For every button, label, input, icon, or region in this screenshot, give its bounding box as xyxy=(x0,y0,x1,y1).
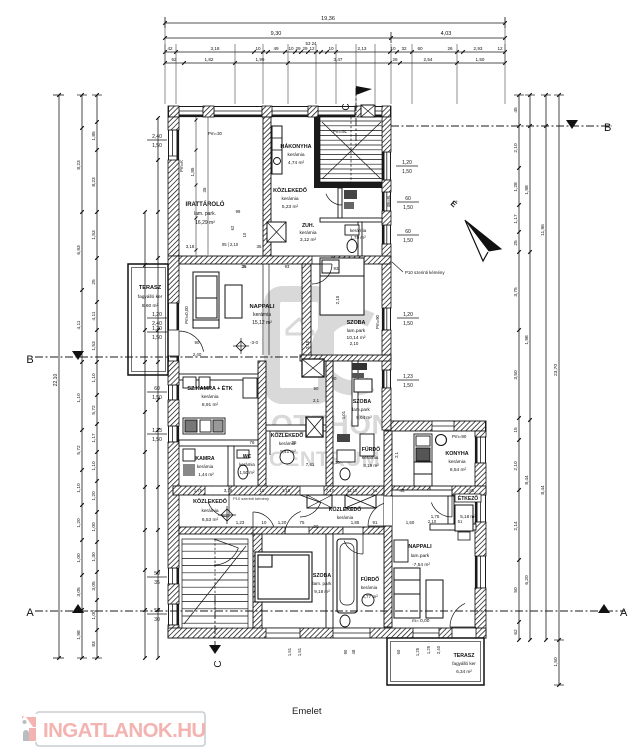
left wall hatch 7 xyxy=(168,625,179,638)
svg-text:30: 30 xyxy=(154,617,160,623)
svg-text:NAPPALI: NAPPALI xyxy=(408,544,432,550)
svg-text:1,70 m²: 1,70 m² xyxy=(350,235,366,240)
bed szoba1 xyxy=(320,258,364,315)
svg-text:1,00: 1,00 xyxy=(91,522,97,532)
svg-text:HÁKONYHA: HÁKONYHA xyxy=(280,143,311,150)
svg-text:1,50: 1,50 xyxy=(152,395,162,401)
right exterior wall band xyxy=(382,117,391,430)
svg-text:2,10: 2,10 xyxy=(513,461,519,471)
wc bottom xyxy=(340,615,350,627)
sofa nappali xyxy=(193,272,219,328)
svg-text:kerámia: kerámia xyxy=(239,462,255,467)
svg-text:-3·0: -3·0 xyxy=(250,340,258,345)
wall left of bottom szoba xyxy=(253,534,262,628)
shaft X box 2 xyxy=(306,417,323,437)
right wall hatch 6 xyxy=(382,388,391,430)
svg-text:1,20: 1,20 xyxy=(91,491,97,501)
kitchen counter wing xyxy=(414,434,447,486)
svg-text:1,99: 1,99 xyxy=(256,57,265,62)
partition wc top xyxy=(338,188,342,218)
svg-text:KÖZLEKEDŐ: KÖZLEKEDŐ xyxy=(273,187,307,194)
svg-text:1,50: 1,50 xyxy=(152,143,162,149)
wing right wall hatch 0 xyxy=(475,431,486,437)
right wall hatch 4 xyxy=(382,244,391,308)
corridor crossed cabinets xyxy=(307,495,332,508)
svg-text:1,20: 1,20 xyxy=(152,326,162,332)
svg-text:35: 35 xyxy=(242,264,247,269)
svg-text:2,93: 2,93 xyxy=(474,46,483,51)
svg-text:kerámia: kerámia xyxy=(253,312,271,318)
right dimension chain x546 xyxy=(545,95,547,640)
svg-text:3,47: 3,47 xyxy=(334,57,343,62)
wing dining wall h xyxy=(430,524,476,530)
door arc szoba bottom left xyxy=(253,512,274,527)
svg-text:lam.park: lam.park xyxy=(352,407,370,412)
wing right wall hatch 2 xyxy=(475,522,486,556)
svg-text:1,82: 1,82 xyxy=(205,57,214,62)
svg-text:ZUH.: ZUH. xyxy=(302,223,315,229)
svg-text:2,15: 2,15 xyxy=(335,295,340,304)
interior extension lines x196 x208 xyxy=(195,110,197,255)
svg-text:kerámia: kerámia xyxy=(201,394,218,400)
wall szkamra right xyxy=(258,361,266,486)
top wall window glass lines xyxy=(179,110,203,112)
svg-text:2,10: 2,10 xyxy=(305,340,310,349)
svg-text:INGATLANOK.HU: INGATLANOK.HU xyxy=(43,719,206,742)
svg-text:5,72: 5,72 xyxy=(91,405,97,415)
svg-text:8,91 m²: 8,91 m² xyxy=(202,402,219,408)
svg-text:Pm=9L: Pm=9L xyxy=(333,129,348,134)
svg-text:25: 25 xyxy=(292,440,297,445)
wardrobe wing top xyxy=(394,540,408,562)
terrace door opening left xyxy=(168,330,179,356)
shaft X box 1 xyxy=(302,359,324,377)
svg-text:KAMRA: KAMRA xyxy=(195,456,215,462)
svg-text:62: 62 xyxy=(513,629,519,635)
svg-text:1,20: 1,20 xyxy=(152,312,162,318)
svg-text:3,18: 3,18 xyxy=(224,488,233,493)
svg-text:1,51: 1,51 xyxy=(297,647,302,656)
wing top wall xyxy=(391,421,486,431)
svg-text:kerámia: kerámia xyxy=(197,464,214,469)
section line C top flag xyxy=(355,88,357,146)
door arc szoba bottom xyxy=(285,511,301,534)
wing dining wall v xyxy=(448,496,454,530)
svg-text:1,51: 1,51 xyxy=(287,647,292,656)
svg-text:2,13: 2,13 xyxy=(358,46,367,51)
svg-text:WC: WC xyxy=(243,454,252,460)
svg-text:P10 szerinti kémény: P10 szerinti kémény xyxy=(233,496,269,501)
svg-text:1,50: 1,50 xyxy=(406,520,415,525)
right wall hatch 3 xyxy=(382,211,391,225)
svg-text:1,23: 1,23 xyxy=(152,428,162,434)
svg-text:lam.park: lam.park xyxy=(411,553,430,559)
szoba2 partition xyxy=(352,361,358,426)
svg-text:2,10: 2,10 xyxy=(428,519,437,524)
svg-text:kerámia: kerámia xyxy=(281,196,298,202)
svg-text:60: 60 xyxy=(154,386,160,392)
svg-text:1,53: 1,53 xyxy=(91,341,97,351)
left wall hatch 6 xyxy=(168,584,179,604)
interior wall irattarolo right xyxy=(263,117,271,256)
svg-text:A: A xyxy=(620,607,628,619)
svg-text:3,05: 3,05 xyxy=(91,581,97,591)
door arc corridor2 xyxy=(300,503,321,518)
svg-text:49: 49 xyxy=(273,46,279,51)
svg-text:6,53 m²: 6,53 m² xyxy=(202,517,219,523)
svg-text:5,41 m²: 5,41 m² xyxy=(280,449,296,454)
svg-text:7,10: 7,10 xyxy=(326,488,335,493)
svg-text:KÖZLEKEDŐ: KÖZLEKEDŐ xyxy=(329,506,362,513)
svg-text:3,75: 3,75 xyxy=(513,287,519,297)
wing right wall hatch 1 xyxy=(475,463,486,492)
kamra top wall xyxy=(179,440,258,446)
svg-text:TERASZ: TERASZ xyxy=(139,285,162,291)
svg-text:10: 10 xyxy=(255,46,261,51)
svg-text:10: 10 xyxy=(288,46,294,51)
svg-text:KONYHA: KONYHA xyxy=(445,451,468,457)
wing kitchen bottom wall xyxy=(392,490,452,496)
svg-text:41,10: 41,10 xyxy=(347,488,358,493)
svg-text:B: B xyxy=(604,122,611,134)
corridor bottom wall xyxy=(179,527,390,534)
svg-text:2,40: 2,40 xyxy=(193,352,202,357)
svg-text:1,20: 1,20 xyxy=(402,160,412,166)
bottom terrace door opening xyxy=(452,628,476,638)
svg-text:C: C xyxy=(341,103,352,110)
sink bottom bath xyxy=(362,594,374,606)
svg-text:1,23: 1,23 xyxy=(236,520,245,525)
svg-text:7,41: 7,41 xyxy=(306,462,315,467)
svg-text:Pm=K: Pm=K xyxy=(179,160,184,172)
bathtub bottom xyxy=(337,539,357,613)
svg-text:C: C xyxy=(213,660,224,667)
svg-text:1,85: 1,85 xyxy=(190,167,195,176)
svg-text:60: 60 xyxy=(417,46,423,51)
svg-text:8,54 m²: 8,54 m² xyxy=(450,467,467,473)
svg-text:kerámia: kerámia xyxy=(361,585,378,590)
svg-text:A: A xyxy=(26,607,34,619)
svg-text:15,12 m²: 15,12 m² xyxy=(252,320,272,326)
svg-text:60: 60 xyxy=(396,649,401,654)
top dimension chain row 1 overall xyxy=(165,22,505,24)
svg-text:É: É xyxy=(449,199,459,210)
dining table etkezo xyxy=(455,505,473,531)
svg-text:1,50: 1,50 xyxy=(403,383,413,389)
top wall pillar 4 xyxy=(355,106,365,117)
svg-text:KÖZLEKEDŐ: KÖZLEKEDŐ xyxy=(271,432,304,439)
svg-text:Pm=90: Pm=90 xyxy=(452,434,467,439)
left wall window glass lines xyxy=(172,130,174,156)
svg-text:3,18: 3,18 xyxy=(211,46,220,51)
svg-text:10: 10 xyxy=(262,520,267,525)
svg-text:6,34 m²: 6,34 m² xyxy=(456,669,472,674)
svg-text:10: 10 xyxy=(242,232,247,237)
svg-text:kerámia: kerámia xyxy=(287,152,304,158)
top dimension chain row 2 xyxy=(165,37,505,39)
svg-text:8,44: 8,44 xyxy=(524,475,530,485)
door arc top wc xyxy=(326,194,342,205)
right wall hatch 1 xyxy=(382,117,391,152)
svg-text:93: 93 xyxy=(334,266,339,271)
svg-text:NAPPALI: NAPPALI xyxy=(249,304,274,310)
svg-text:1,01: 1,01 xyxy=(341,410,346,419)
top-right corner pillar xyxy=(382,106,391,117)
svg-text:62: 62 xyxy=(230,225,235,230)
left dimension chain x82 xyxy=(81,95,83,658)
room label etkezo xyxy=(455,494,481,502)
svg-text:93: 93 xyxy=(285,264,290,269)
svg-text:8,23: 8,23 xyxy=(91,177,97,187)
top-left corner pillar xyxy=(168,106,179,117)
svg-text:3,18: 3,18 xyxy=(186,244,195,249)
svg-text:45: 45 xyxy=(513,107,519,113)
svg-text:16,29 m²: 16,29 m² xyxy=(195,220,215,226)
svg-text:Emelet: Emelet xyxy=(292,706,322,717)
top dimension chain row 4 xyxy=(165,62,505,64)
svg-text:IRATTÁROLÓ: IRATTÁROLÓ xyxy=(186,200,225,208)
kozlekedo mid fixtures xyxy=(280,450,294,464)
svg-text:2,1: 2,1 xyxy=(394,451,399,457)
svg-text:3,19 m²: 3,19 m² xyxy=(363,463,379,468)
svg-text:1,10: 1,10 xyxy=(91,373,97,383)
svg-text:B: B xyxy=(26,354,33,366)
bottom exterior wall xyxy=(168,628,486,638)
svg-text:1,98: 1,98 xyxy=(524,335,530,345)
svg-text:5,23 m²: 5,23 m² xyxy=(282,204,299,210)
svg-text:1,85: 1,85 xyxy=(466,488,475,493)
left exterior wall band xyxy=(168,117,179,638)
svg-text:m= 0,00: m= 0,00 xyxy=(412,618,430,624)
zuh shower X xyxy=(267,222,286,242)
kozlekedo mid top wall xyxy=(266,425,326,431)
svg-text:51: 51 xyxy=(458,519,463,524)
interior wall below top rooms xyxy=(179,256,391,264)
svg-text:6,20: 6,20 xyxy=(524,575,530,585)
svg-text:35: 35 xyxy=(154,580,160,586)
svg-text:8,60 m²: 8,60 m² xyxy=(142,303,159,309)
svg-text:1,50 m²: 1,50 m² xyxy=(240,470,255,475)
svg-text:SZOBA: SZOBA xyxy=(347,320,366,326)
table nappali xyxy=(225,285,242,318)
svg-text:9,30: 9,30 xyxy=(271,31,282,37)
svg-text:15: 15 xyxy=(513,427,519,433)
svg-text:19,36: 19,36 xyxy=(321,16,335,22)
svg-text:·7,54 m²: ·7,54 m² xyxy=(412,562,430,568)
door arc stair xyxy=(214,548,238,565)
svg-text:fagyálló ker: fagyálló ker xyxy=(138,294,163,300)
main middle wall xyxy=(173,486,486,495)
svg-text:60: 60 xyxy=(405,196,411,202)
svg-text:TERASZ: TERASZ xyxy=(454,653,476,659)
top exterior wall band xyxy=(168,106,391,117)
svg-text:1,10: 1,10 xyxy=(91,461,97,471)
svg-text:1,75: 1,75 xyxy=(431,514,440,519)
svg-text:25: 25 xyxy=(91,279,97,285)
stair enclosure walls top xyxy=(314,117,320,188)
svg-text:1,30: 1,30 xyxy=(91,552,97,562)
section line B left xyxy=(35,356,302,358)
door arc kitchen xyxy=(431,503,452,518)
terrace bottom right outline xyxy=(387,638,484,685)
top wall pillar 3 xyxy=(308,106,318,117)
svg-text:1,00: 1,00 xyxy=(91,610,97,620)
svg-text:1,85: 1,85 xyxy=(91,131,97,141)
shaft X box top wall xyxy=(361,105,375,117)
svg-text:60: 60 xyxy=(405,229,411,235)
svg-text:2,54: 2,54 xyxy=(424,57,433,62)
svg-text:1,50: 1,50 xyxy=(553,657,559,667)
svg-text:Pm=90: Pm=90 xyxy=(375,314,380,329)
svg-text:1,28: 1,28 xyxy=(513,182,519,192)
right wall hatch 2 xyxy=(382,180,391,192)
svg-text:75: 75 xyxy=(300,520,305,525)
svg-text:90: 90 xyxy=(314,524,319,529)
svg-text:35: 35 xyxy=(202,187,207,192)
svg-text:1,53: 1,53 xyxy=(91,230,97,240)
svg-text:83: 83 xyxy=(91,641,97,647)
svg-text:4,77 m²: 4,77 m² xyxy=(362,594,378,599)
left wall hatch 5 xyxy=(168,442,179,568)
svg-text:90: 90 xyxy=(314,386,319,391)
svg-text:05 | 2,10: 05 | 2,10 xyxy=(222,242,239,247)
svg-text:4,11: 4,11 xyxy=(91,311,97,320)
svg-text:kerámia: kerámia xyxy=(362,455,379,460)
svg-text:1,17: 1,17 xyxy=(513,214,519,224)
svg-text:23,70: 23,70 xyxy=(553,364,559,376)
furdo top fixtures xyxy=(337,434,350,442)
svg-text:29: 29 xyxy=(295,46,301,51)
svg-text:SZOBA: SZOBA xyxy=(313,573,331,579)
svg-text:12: 12 xyxy=(309,46,315,51)
svg-text:lam. park.: lam. park. xyxy=(194,211,216,217)
szkamra furniture xyxy=(183,377,196,388)
door arc terrace2 xyxy=(450,603,465,627)
door arc corridor1 xyxy=(208,503,229,518)
svg-text:1,00: 1,00 xyxy=(76,553,82,563)
elevation marker nappali xyxy=(236,341,246,351)
partition zuh top xyxy=(320,218,382,222)
wall szoba2 left xyxy=(326,361,333,486)
svg-text:3,50: 3,50 xyxy=(513,370,519,380)
interior wall nappali/szoba divider xyxy=(302,264,311,355)
svg-text:1,50: 1,50 xyxy=(403,238,413,244)
mid-left dimension chain x158 xyxy=(157,118,159,658)
svg-text:2,10: 2,10 xyxy=(350,341,359,346)
svg-text:29: 29 xyxy=(302,46,308,51)
svg-text:Pm=0,00: Pm=0,00 xyxy=(184,306,189,324)
terrace left outline xyxy=(128,264,168,375)
left wall hatch 3 xyxy=(168,361,179,385)
svg-text:SZ.KAMRA + ÉTK: SZ.KAMRA + ÉTK xyxy=(187,384,232,392)
svg-text:kerámia: kerámia xyxy=(448,459,465,465)
svg-text:35: 35 xyxy=(257,244,262,249)
svg-text:32: 32 xyxy=(401,46,407,51)
svg-text:1,20: 1,20 xyxy=(278,520,287,525)
svg-text:26: 26 xyxy=(447,46,453,51)
svg-text:12: 12 xyxy=(497,46,503,51)
szoba2 fixtures xyxy=(352,363,367,370)
terrace door arc xyxy=(179,331,204,352)
svg-text:1,50: 1,50 xyxy=(152,335,162,341)
svg-text:99: 99 xyxy=(236,209,241,214)
left wall hatch 2 xyxy=(168,256,179,303)
svg-text:51: 51 xyxy=(373,488,378,493)
svg-text:1,85: 1,85 xyxy=(351,520,360,525)
svg-text:lam. park: lam. park xyxy=(313,581,333,586)
svg-text:1,20: 1,20 xyxy=(403,312,413,318)
svg-text:1,50: 1,50 xyxy=(402,169,412,175)
svg-text:9,04 m²: 9,04 m² xyxy=(356,415,372,420)
ingatlanok.hu logo box xyxy=(36,712,205,746)
svg-text:2,10: 2,10 xyxy=(513,143,519,153)
svg-text:90: 90 xyxy=(195,340,200,345)
svg-text:1,25: 1,25 xyxy=(426,645,431,654)
top dimension chain row 3 xyxy=(165,51,505,53)
svg-text:6,93: 6,93 xyxy=(76,245,82,255)
left chains top/bottom terminators xyxy=(77,94,87,96)
right dimension chain x530 xyxy=(529,95,531,640)
svg-text:1,98: 1,98 xyxy=(524,185,530,195)
nappali door arc xyxy=(312,264,332,284)
svg-text:Pm=30: Pm=30 xyxy=(208,131,223,136)
right dimension chain x519 xyxy=(518,95,520,640)
svg-text:P10 szerinti kémény: P10 szerinti kémény xyxy=(405,270,445,275)
mid-left dimension chain x145 xyxy=(144,212,146,658)
svg-text:SZOBA: SZOBA xyxy=(353,399,371,405)
elevation marker corridor xyxy=(221,509,233,521)
kamra/wc partition xyxy=(228,446,234,486)
svg-text:4,11: 4,11 xyxy=(76,320,82,329)
svg-text:5,72: 5,72 xyxy=(76,445,82,455)
wall main/wing divider xyxy=(384,431,392,627)
left wall hatch 0 xyxy=(168,117,179,130)
svg-text:48: 48 xyxy=(351,649,356,654)
svg-text:90: 90 xyxy=(332,376,337,381)
svg-text:4,03: 4,03 xyxy=(441,31,452,37)
svg-text:kerámia: kerámia xyxy=(299,230,316,236)
svg-text:FÜRDŐ: FÜRDŐ xyxy=(361,576,379,583)
wall szoba/furdo bottom xyxy=(326,534,333,628)
svg-text:1,20: 1,20 xyxy=(76,518,82,528)
svg-text:2,40: 2,40 xyxy=(152,134,162,140)
svg-text:5,18 m²: 5,18 m² xyxy=(460,514,476,519)
svg-text:dlk=8L: dlk=8L xyxy=(386,194,391,207)
svg-text:2,40: 2,40 xyxy=(436,645,441,654)
svg-text:91: 91 xyxy=(373,520,378,525)
svg-text:10: 10 xyxy=(260,488,265,493)
partition wc top2 xyxy=(358,222,362,256)
svg-text:3,12 m²: 3,12 m² xyxy=(300,237,317,243)
svg-text:1,23: 1,23 xyxy=(403,374,413,380)
top wall pillar 1 xyxy=(203,106,214,117)
svg-text:4,74 m²: 4,74 m² xyxy=(288,160,305,166)
svg-text:1,98: 1,98 xyxy=(76,630,82,640)
top wall pillar 2 xyxy=(262,106,272,117)
north arrow xyxy=(466,221,501,251)
svg-text:1,50: 1,50 xyxy=(403,321,413,327)
svg-text:76: 76 xyxy=(250,440,255,445)
svg-text:kerámia: kerámia xyxy=(350,228,367,233)
svg-text:1,50: 1,50 xyxy=(152,437,162,443)
left dimension chain x97 xyxy=(96,95,98,658)
right dimension chain x559 xyxy=(558,95,560,685)
svg-text:26: 26 xyxy=(392,57,398,62)
svg-text:1,44 m²: 1,44 m² xyxy=(198,472,214,477)
svg-text:1,75: 1,75 xyxy=(194,488,203,493)
svg-text:1,50: 1,50 xyxy=(403,205,413,211)
section line C bottom flag xyxy=(214,596,216,652)
